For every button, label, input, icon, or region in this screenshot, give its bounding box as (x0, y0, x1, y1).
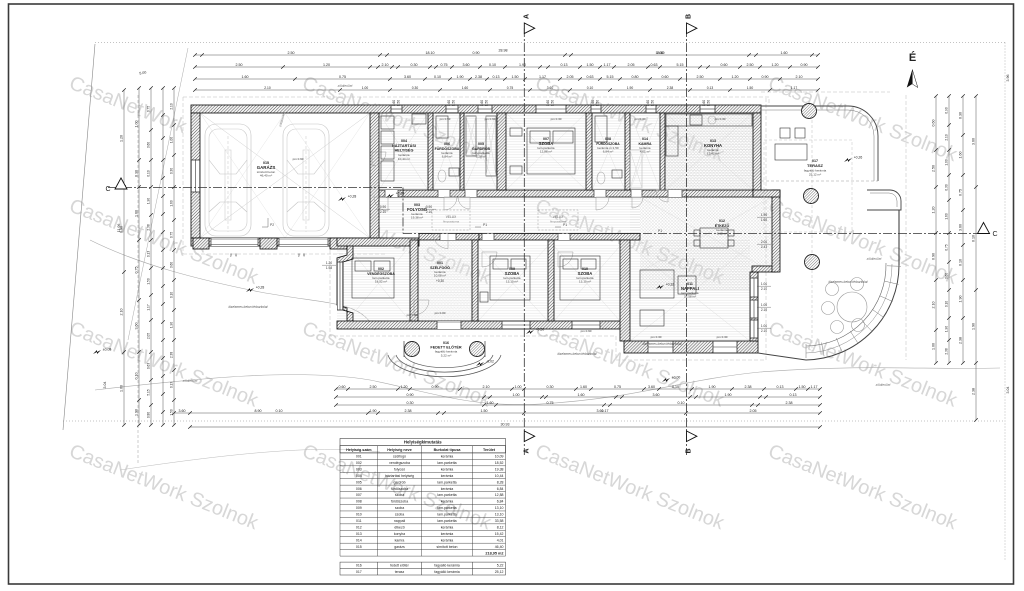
svg-text:0.60: 0.60 (702, 100, 706, 106)
svg-text:0.13: 0.13 (493, 75, 500, 79)
svg-text:0.10: 0.10 (434, 75, 441, 79)
svg-text:12,88 m²: 12,88 m² (540, 150, 552, 154)
lower exterior wall (337, 321, 624, 329)
svg-text:P2: P2 (270, 223, 274, 227)
svg-text:3.60: 3.60 (135, 323, 139, 330)
car 2 in garage (283, 124, 329, 236)
svg-text:002: 002 (356, 461, 362, 465)
level marker driveway (246, 288, 254, 292)
level marker patio (526, 330, 534, 334)
svg-text:0.60: 0.60 (339, 385, 346, 389)
parcel boundary dotted top (95, 42, 1005, 44)
svg-text:1.50: 1.50 (512, 75, 519, 79)
svg-text:P1: P1 (483, 223, 487, 227)
window top wall bath008 (591, 105, 601, 113)
level marker site left (93, 350, 101, 354)
parcel boundary dotted right (1004, 43, 1006, 561)
svg-text:P1: P1 (658, 229, 662, 233)
porch columns (405, 342, 420, 357)
svg-text:szoba: szoba (395, 513, 404, 517)
nappali right wall (750, 272, 758, 341)
room diagonal guides (347, 113, 772, 341)
svg-text:kerámia: kerámia (441, 500, 454, 504)
svg-text:+0,30: +0,30 (536, 328, 545, 332)
svg-text:2.10: 2.10 (932, 302, 936, 309)
top dimension chain 4 (195, 89, 818, 91)
svg-text:1.90: 1.90 (147, 198, 151, 204)
etkezo step wall (752, 266, 776, 272)
svg-text:1.90: 1.90 (170, 322, 174, 328)
bath008 fixtures (595, 116, 622, 184)
svg-text:1.60: 1.60 (170, 200, 174, 206)
svg-text:1.20: 1.20 (326, 261, 332, 265)
terrace outline top (761, 106, 878, 181)
entry door szelfogo (437, 321, 461, 329)
svg-text:2.10: 2.10 (380, 210, 386, 214)
svg-text:HÁZTARTÁSI: HÁZTARTÁSI (392, 143, 416, 148)
svg-text:3.60: 3.60 (597, 409, 604, 413)
svg-text:0.10: 0.10 (135, 373, 139, 380)
svg-text:1.90: 1.90 (761, 213, 767, 217)
svg-text:+0,28: +0,28 (348, 195, 357, 199)
svg-text:1.20: 1.20 (401, 385, 408, 389)
vendegszoba bay wall (337, 246, 353, 321)
svg-text:3.60: 3.60 (147, 142, 151, 148)
svg-text:1.50: 1.50 (481, 409, 488, 413)
svg-text:0.75: 0.75 (547, 401, 554, 405)
svg-text:1.50: 1.50 (551, 100, 555, 106)
svg-text:3.04: 3.04 (103, 382, 107, 389)
window lower wall szoba010 (572, 321, 600, 329)
svg-text:15,42 m²: 15,42 m² (707, 152, 719, 156)
svg-text:0.13: 0.13 (707, 86, 714, 90)
svg-text:1.60: 1.60 (781, 51, 788, 55)
svg-text:15,42: 15,42 (495, 532, 504, 536)
svg-text:fagyálló kerámia: fagyálló kerámia (434, 564, 460, 568)
svg-text:1.50: 1.50 (596, 100, 600, 106)
svg-text:1.60: 1.60 (487, 401, 494, 405)
svg-text:002: 002 (378, 267, 384, 271)
level marker utility (386, 194, 394, 198)
svg-text:2.10: 2.10 (170, 103, 174, 109)
svg-text:1.17: 1.17 (811, 385, 818, 389)
watermark grid CasaNetWork Szolnok (66, 72, 961, 535)
window garage left wall (191, 160, 200, 192)
szoba007 bed (510, 128, 575, 174)
parcel boundary slanted left (63, 44, 95, 430)
partition kamra/konyha (660, 113, 665, 190)
svg-text:+0,32: +0,32 (666, 283, 675, 287)
svg-text:30.93: 30.93 (501, 423, 510, 427)
svg-text:0.75: 0.75 (507, 86, 514, 90)
svg-text:1.50: 1.50 (587, 63, 594, 67)
terrain contour curve across bottom (95, 368, 1000, 405)
svg-text:C: C (992, 231, 997, 238)
exterior wall top (191, 105, 761, 113)
svg-text:3.60: 3.60 (648, 385, 655, 389)
partition szoba009/szoba010 (548, 240, 554, 321)
svg-text:1.00: 1.00 (120, 385, 124, 392)
svg-text:2.50: 2.50 (288, 51, 295, 55)
garage door openings (211, 238, 258, 246)
svg-text:006: 006 (356, 487, 362, 491)
svg-text:kerámia: kerámia (441, 467, 454, 471)
left dimension chain 4 (162, 88, 164, 425)
svg-text:2.43: 2.43 (761, 245, 767, 249)
svg-text:8.90: 8.90 (255, 409, 262, 413)
svg-text:008: 008 (356, 500, 362, 504)
door gaps lower rooms wall (482, 234, 494, 241)
left dimension chain 3 (150, 88, 152, 425)
svg-text:3.60: 3.60 (404, 75, 411, 79)
svg-text:004: 004 (356, 474, 362, 478)
top dimension chain 2 (195, 66, 818, 68)
floor nappali parquet (630, 240, 750, 341)
svg-text:Terület: Terület (483, 448, 496, 452)
svg-text:2.38: 2.38 (959, 337, 963, 344)
terrace curved step band (806, 265, 899, 360)
svg-text:10,09: 10,09 (495, 455, 504, 459)
level marker terrace (844, 158, 852, 162)
svg-text:012: 012 (356, 526, 362, 530)
left dimension chain 2 (138, 88, 140, 425)
svg-text:1.98: 1.98 (326, 266, 332, 270)
svg-text:13,10 m²: 13,10 m² (579, 280, 591, 284)
svg-text:005: 005 (356, 480, 362, 484)
svg-text:+0,26: +0,26 (854, 156, 863, 160)
svg-text:+0,30: +0,30 (436, 279, 444, 283)
svg-text:1.90: 1.90 (709, 385, 716, 389)
etkezo bay right wall (772, 190, 780, 272)
svg-text:1.50: 1.50 (147, 278, 151, 284)
svg-text:TERASZ: TERASZ (807, 163, 824, 168)
floor corridor (379, 197, 640, 234)
svg-text:3.96: 3.96 (1006, 75, 1010, 82)
svg-text:0.90: 0.90 (432, 385, 439, 389)
svg-text:1.50: 1.50 (747, 86, 754, 90)
svg-text:014: 014 (642, 137, 648, 141)
svg-text:kerámia: kerámia (441, 526, 454, 530)
svg-text:2.38: 2.38 (147, 224, 151, 230)
svg-text:kerámia: kerámia (441, 532, 454, 536)
svg-text:1.90: 1.90 (725, 393, 732, 397)
svg-text:pm 0.90: pm 0.90 (293, 157, 304, 161)
svg-text:2.50: 2.50 (697, 75, 704, 79)
svg-text:3.60: 3.60 (959, 224, 963, 231)
svg-text:étkező: étkező (394, 526, 404, 530)
svg-text:Burkolat típusa: Burkolat típusa (434, 448, 462, 452)
szoba009 bed (480, 256, 530, 302)
svg-text:013: 013 (356, 532, 362, 536)
svg-text:004: 004 (401, 139, 407, 143)
main right wall (753, 113, 761, 196)
window bay vendegszoba (337, 262, 343, 310)
terrace bottom edge (758, 353, 806, 360)
etkezo bay top wall (753, 190, 780, 197)
svg-text:fénycsatorna: fénycsatorna (443, 220, 459, 224)
svg-text:pm 0.93: pm 0.93 (440, 117, 451, 121)
svg-text:zöldterület: zöldterület (337, 84, 353, 88)
svg-text:1.17: 1.17 (539, 75, 546, 79)
svg-text:-0,02: -0,02 (486, 360, 494, 364)
svg-text:18,52: 18,52 (495, 461, 504, 465)
svg-text:1.50: 1.50 (799, 385, 806, 389)
velux skylight 1 (432, 210, 470, 230)
svg-text:33,58: 33,58 (495, 519, 504, 523)
outdoor areas mini table (340, 562, 506, 575)
room schedule table (340, 439, 506, 453)
floor kitchen crosshatch (665, 113, 753, 190)
svg-text:3.04: 3.04 (1006, 387, 1010, 394)
svg-text:fedett előtér: fedett előtér (390, 564, 409, 568)
svg-text:2.10: 2.10 (761, 287, 767, 291)
svg-text:kerámia: kerámia (441, 487, 454, 491)
svg-text:001: 001 (356, 455, 362, 459)
partition furdo/gardrob (460, 113, 464, 190)
svg-text:0.10: 0.10 (972, 235, 976, 242)
svg-text:5,22 m²: 5,22 m² (441, 354, 452, 358)
svg-text:szoba: szoba (395, 493, 404, 497)
svg-text:±0,08: ±0,08 (103, 348, 112, 352)
bottom dimension chain 2 (336, 396, 820, 398)
svg-text:0.75: 0.75 (339, 75, 346, 79)
svg-text:1.00: 1.00 (362, 86, 369, 90)
svg-text:1.17: 1.17 (604, 63, 611, 67)
svg-text:2.10: 2.10 (945, 134, 949, 140)
svg-text:zöldterület: zöldterület (866, 257, 882, 261)
right dimension chain 3 (962, 96, 964, 363)
svg-text:+0,28: +0,28 (256, 286, 265, 290)
bottom dimension chain 3 (336, 404, 820, 406)
svg-text:1.50: 1.50 (397, 100, 401, 106)
svg-text:016: 016 (356, 564, 362, 568)
svg-text:1.90: 1.90 (457, 75, 464, 79)
svg-text:fürdőszoba: fürdőszoba (391, 487, 408, 491)
svg-text:10,44 m²: 10,44 m² (398, 157, 410, 161)
svg-text:1.20: 1.20 (120, 135, 124, 142)
svg-text:2.38: 2.38 (667, 86, 674, 90)
floor szelfogo ceramic (418, 240, 472, 321)
level marker outside porch (662, 378, 670, 382)
svg-text:1.50: 1.50 (170, 409, 174, 415)
svg-text:2.10: 2.10 (120, 309, 124, 316)
svg-text:C: C (105, 186, 110, 193)
svg-text:0.60: 0.60 (480, 100, 484, 106)
svg-text:zöldterület: zöldterület (182, 379, 198, 383)
svg-text:3.60: 3.60 (170, 262, 174, 268)
svg-text:0.63: 0.63 (587, 75, 594, 79)
section marker A bottom (524, 431, 534, 442)
section marker C right (978, 223, 990, 234)
svg-text:3.60: 3.60 (972, 138, 976, 145)
svg-text:19,38 m²: 19,38 m² (411, 216, 423, 220)
szoba010 bed (560, 256, 600, 300)
svg-text:5,22: 5,22 (497, 564, 504, 568)
svg-text:2.38: 2.38 (745, 385, 752, 389)
svg-text:kiselemes beton térburkolat: kiselemes beton térburkolat (229, 305, 268, 309)
svg-text:2.50: 2.50 (236, 63, 243, 67)
svg-text:kamra: kamra (395, 538, 405, 542)
svg-text:nappali: nappali (394, 519, 406, 523)
svg-text:1.60: 1.60 (959, 152, 963, 159)
svg-text:A: A (524, 14, 531, 19)
svg-text:0.90: 0.90 (380, 205, 386, 209)
svg-text:4,01 m²: 4,01 m² (640, 150, 651, 154)
svg-text:2.05: 2.05 (750, 409, 757, 413)
svg-text:szoba: szoba (395, 506, 404, 510)
dashed setback vertical left (137, 95, 139, 465)
svg-text:0.30: 0.30 (945, 184, 949, 190)
level marker garage (338, 197, 346, 201)
svg-text:kiselemes beton térburkolat: kiselemes beton térburkolat (829, 280, 868, 284)
svg-text:0.10: 0.10 (678, 401, 685, 405)
svg-text:18.10: 18.10 (426, 51, 435, 55)
svg-text:0.63: 0.63 (147, 363, 151, 369)
section line C-C jog (402, 188, 404, 234)
svg-text:pm 0.90: pm 0.90 (407, 313, 418, 317)
svg-text:pm 0.90: pm 0.90 (581, 329, 592, 333)
svg-text:1.20: 1.20 (323, 63, 330, 67)
svg-text:1.90: 1.90 (370, 409, 377, 413)
svg-text:25,12 m²: 25,12 m² (809, 173, 821, 177)
svg-text:5.15: 5.15 (677, 63, 684, 67)
svg-text:008: 008 (605, 137, 611, 141)
svg-text:2.38: 2.38 (475, 75, 482, 79)
svg-text:2.38: 2.38 (170, 352, 174, 358)
vendegszoba top wall (337, 238, 419, 246)
svg-text:0.75: 0.75 (614, 385, 621, 389)
svg-text:+0,63: +0,63 (396, 192, 405, 196)
svg-text:1.00: 1.00 (513, 393, 520, 397)
svg-text:1.90: 1.90 (945, 326, 949, 332)
svg-text:2.38: 2.38 (972, 388, 976, 395)
svg-text:Helyiség szám: Helyiség szám (346, 448, 372, 452)
right dimension chain 2 (948, 96, 950, 363)
svg-text:2.38: 2.38 (945, 348, 949, 354)
svg-text:1.50: 1.50 (707, 100, 711, 106)
garage door piers (193, 238, 209, 249)
window top wall szoba007 (536, 105, 566, 113)
svg-text:1.00: 1.00 (761, 303, 767, 307)
svg-text:±0,00: ±0,00 (672, 376, 681, 380)
svg-text:003: 003 (356, 467, 362, 471)
svg-text:1.00: 1.00 (170, 137, 174, 143)
svg-text:1.00: 1.00 (932, 343, 936, 350)
svg-text:011: 011 (356, 519, 362, 523)
svg-text:1.20: 1.20 (932, 207, 936, 214)
svg-text:0.13: 0.13 (777, 385, 784, 389)
bottom dimension chain 1 (336, 388, 820, 390)
svg-text:0.60: 0.60 (392, 100, 396, 106)
svg-text:5.15: 5.15 (147, 389, 151, 395)
nappali left wall (620, 240, 630, 341)
bath006 fixtures (436, 116, 459, 182)
svg-text:8,28 m²: 8,28 m² (476, 155, 487, 159)
svg-text:2.50: 2.50 (932, 165, 936, 172)
svg-text:1.60: 1.60 (242, 75, 249, 79)
svg-text:kerámia: kerámia (441, 538, 454, 542)
secondary slanted setback line (128, 48, 188, 340)
svg-text:terasz: terasz (395, 570, 405, 574)
section line A-A (523, 28, 525, 455)
svg-text:0.60: 0.60 (447, 100, 451, 106)
svg-text:1.60: 1.60 (580, 385, 587, 389)
svg-text:A: A (524, 448, 531, 453)
svg-text:0.90: 0.90 (407, 393, 414, 397)
section marker A top (524, 23, 534, 34)
svg-text:001: 001 (437, 261, 443, 265)
section line B-B (686, 28, 688, 455)
svg-text:1.00: 1.00 (761, 324, 767, 328)
svg-text:0.30: 0.30 (959, 112, 963, 119)
svg-text:0.90: 0.90 (932, 253, 936, 260)
svg-text:2.10: 2.10 (796, 75, 803, 79)
svg-text:0.10: 0.10 (672, 385, 679, 389)
svg-text:50: 50 (229, 253, 233, 257)
svg-text:3.60: 3.60 (179, 409, 186, 413)
svg-text:kerámia: kerámia (441, 455, 454, 459)
svg-text:lam.parketta: lam.parketta (437, 480, 456, 484)
svg-text:12,88: 12,88 (495, 493, 504, 497)
svg-text:1.20: 1.20 (732, 75, 739, 79)
svg-text:VELUX: VELUX (446, 215, 457, 219)
svg-text:009: 009 (356, 506, 362, 510)
kamra shelves (630, 150, 642, 188)
svg-text:1.17: 1.17 (147, 304, 151, 310)
svg-text:2.50: 2.50 (747, 63, 754, 67)
level marker etkezo (656, 285, 664, 289)
svg-text:0.30: 0.30 (412, 86, 419, 90)
garage bottom wall (191, 238, 387, 246)
svg-text:2.00: 2.00 (761, 240, 767, 244)
svg-text:2.38: 2.38 (405, 409, 412, 413)
svg-text:0.10: 0.10 (147, 170, 151, 176)
svg-text:1.90: 1.90 (972, 323, 976, 330)
windows nappali bay (648, 341, 673, 353)
svg-text:2.05: 2.05 (147, 333, 151, 339)
svg-text:fagyálló kerámia: fagyálló kerámia (434, 570, 460, 574)
svg-text:fürdőszoba: fürdőszoba (391, 500, 408, 504)
svg-text:11.06: 11.06 (117, 224, 121, 233)
utility room fixtures (381, 114, 426, 181)
svg-text:33,58 m²: 33,58 m² (684, 295, 696, 299)
door gaps in corridor wall (438, 190, 450, 197)
svg-text:40: 40 (302, 253, 306, 257)
svg-text:pm 0.00: pm 0.00 (435, 311, 446, 315)
svg-text:0.90: 0.90 (801, 63, 808, 67)
etkezo table (694, 228, 734, 248)
svg-text:2.10: 2.10 (761, 308, 767, 312)
svg-text:4,01: 4,01 (497, 538, 504, 542)
svg-text:2.50: 2.50 (370, 385, 377, 389)
svg-text:2.10: 2.10 (761, 329, 767, 333)
svg-text:1.17: 1.17 (791, 86, 798, 90)
terrace step band radial ticks (806, 266, 901, 358)
terrace column 3 (805, 255, 820, 270)
svg-text:2.10: 2.10 (382, 63, 389, 67)
partition vendeg/szelfogo (410, 240, 418, 321)
svg-text:218,95 m2: 218,95 m2 (485, 551, 503, 555)
svg-text:0.75: 0.75 (441, 63, 448, 67)
svg-text:0.60: 0.60 (662, 75, 669, 79)
svg-text:1.20: 1.20 (772, 63, 779, 67)
porch semicircular steps (388, 355, 501, 377)
svg-text:016: 016 (443, 341, 449, 345)
svg-text:1.90: 1.90 (519, 63, 526, 67)
svg-text:gardrób: gardrób (393, 480, 405, 484)
svg-text:1.60: 1.60 (135, 210, 139, 217)
section marker C left (115, 178, 127, 189)
